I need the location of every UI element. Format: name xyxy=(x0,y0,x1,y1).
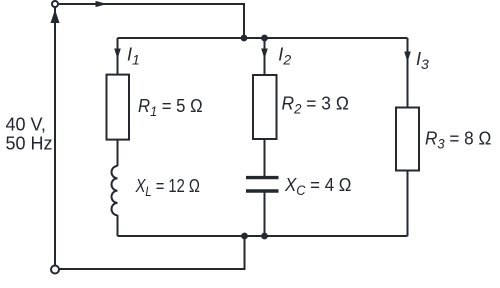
svg-text:40 V,: 40 V, xyxy=(6,114,46,134)
junction node top left xyxy=(241,35,248,42)
svg-text:XC = 4 Ω: XC = 4 Ω xyxy=(284,174,351,198)
wire branch2 drop I2 xyxy=(264,38,266,76)
top bus wire xyxy=(118,37,408,39)
wire bottom return xyxy=(59,236,245,269)
wire left source vertical xyxy=(54,8,56,266)
inductor XL coil xyxy=(112,166,118,215)
wire branch3 drop I3 xyxy=(407,38,409,108)
junction node top right xyxy=(261,35,268,42)
wire R1 to XL xyxy=(117,139,119,166)
junction node bottom right xyxy=(261,233,268,240)
current arrow on top wire xyxy=(96,1,108,7)
svg-text:XL = 12 Ω: XL = 12 Ω xyxy=(135,175,200,199)
current arrow I2 xyxy=(261,49,268,60)
resistor R1 xyxy=(107,75,130,140)
current arrow I3 xyxy=(404,52,411,63)
capacitor XC plates xyxy=(246,178,279,191)
svg-text:R2 = 3 Ω: R2 = 3 Ω xyxy=(282,93,349,117)
wire top horizontal xyxy=(59,4,244,38)
bottom bus wire xyxy=(118,235,408,237)
resistor R2 xyxy=(253,75,277,139)
resistor R3 xyxy=(396,108,419,171)
wire XC to bottom bus xyxy=(264,192,266,236)
svg-text:R1 = 5 Ω: R1 = 5 Ω xyxy=(138,95,203,119)
junction node bottom left xyxy=(241,233,248,240)
source terminal bottom xyxy=(51,266,59,274)
current arrow source up xyxy=(51,10,60,24)
wire branch1 drop I1 xyxy=(117,38,119,75)
svg-text:50 Hz: 50 Hz xyxy=(6,134,53,154)
current arrow I1 xyxy=(114,49,121,60)
wire XL to bottom bus xyxy=(117,215,119,236)
wire R2 to XC xyxy=(264,138,266,177)
source terminal top xyxy=(52,1,58,7)
wire R3 to bottom bus xyxy=(407,170,409,236)
svg-text:R3 = 8 Ω: R3 = 8 Ω xyxy=(425,128,491,152)
